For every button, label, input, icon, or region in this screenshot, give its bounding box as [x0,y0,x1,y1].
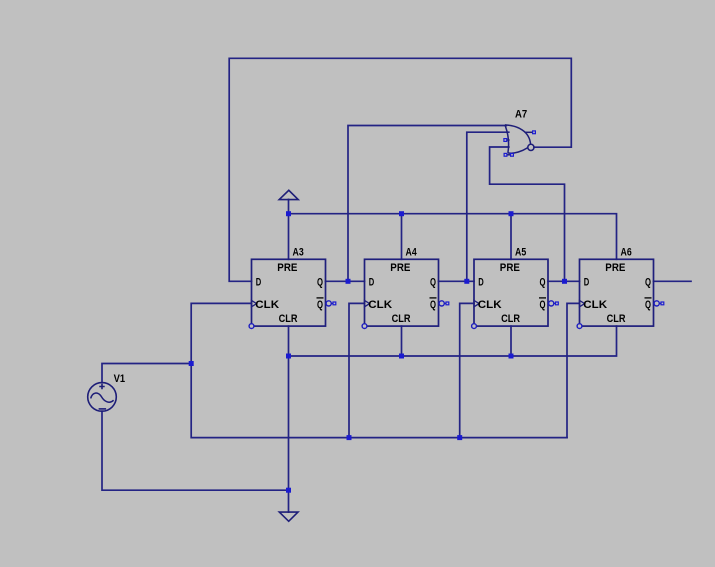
wire V1 minus terminal to ground [102,411,289,490]
svg-text:A4: A4 [406,247,417,259]
svg-text:CLK: CLK [255,299,279,311]
svg-text:CLK: CLK [478,299,502,311]
flip-flop A4 [362,259,449,328]
svg-text:D: D [584,276,590,288]
svg-text:A6: A6 [621,247,632,259]
svg-text:D: D [369,276,375,288]
node junction PRE A5 [509,211,514,216]
svg-text:PRE: PRE [390,262,410,274]
node junction ground [286,488,291,493]
pin square gate input3 [504,139,507,142]
node junction Q4 [464,279,469,284]
node junction CLK A5 [457,435,462,440]
wire A4 PRE drop [401,214,403,260]
pin square gate upper [533,131,536,134]
node junction V1 clk [189,361,194,366]
svg-text:CLR: CLR [392,313,411,325]
wire A5.Q to A6.D [548,280,580,282]
voltage source V1 [88,383,117,412]
wire CLR bus [289,326,617,356]
wire A4.Q to A5.D [439,280,475,282]
wire VCC arrow to PRE bus [288,199,290,213]
svg-text:CLR: CLR [501,313,520,325]
svg-text:CLK: CLK [583,299,607,311]
svg-text:Q: Q [430,299,436,311]
wire CLK riser A6 [567,303,580,437]
svg-text:Q: Q [645,299,651,311]
wire PRE bus [289,214,617,260]
svg-text:CLR: CLR [279,313,298,325]
svg-text:Q: Q [645,276,651,288]
pin square gate bottom right [511,153,514,156]
svg-text:Q: Q [317,299,323,311]
node junction CLR A3 [286,354,291,359]
svg-text:Q: Q [540,276,546,288]
wire A3 PRE drop [288,214,290,260]
node junction CLR A5 [509,354,514,359]
wire V1 plus terminal to CLK net [102,364,191,383]
node junction Q3 [346,279,351,284]
node junction PRE A4 [399,211,404,216]
svg-text:CLK: CLK [368,299,392,311]
svg-text:PRE: PRE [500,262,520,274]
wire A3 CLR down to ground [288,326,290,512]
flip-flop A3 [249,259,336,328]
svg-text:A3: A3 [293,247,304,259]
svg-text:PRE: PRE [277,262,297,274]
node junction PRE A3 [286,211,291,216]
wire CLK riser A4 [349,303,365,437]
node junction CLR A4 [399,354,404,359]
wire CLK riser A5 [460,303,474,437]
flip-flop A6 [577,259,664,328]
svg-text:PRE: PRE [605,262,625,274]
flip-flop A5 [472,259,559,328]
wire node Q5 up and around to gate input 4 [490,147,565,281]
wire A5 CLR drop [510,326,512,356]
svg-text:A7: A7 [515,109,527,121]
svg-text:Q: Q [540,299,546,311]
power symbol VCC arrow [279,190,298,199]
svg-text:D: D [256,276,262,288]
svg-text:CLR: CLR [607,313,626,325]
wire feedback: gate A7 output to top rail down to A3 D [229,58,571,281]
svg-text:Q: Q [317,276,323,288]
node junction Q5 [562,279,567,284]
svg-text:V1: V1 [114,373,126,385]
node junction CLK A4 [347,435,352,440]
pin square gate bottom left [504,153,507,156]
wire node Q4 up to gate input 2 [467,132,509,281]
svg-text:D: D [478,276,484,288]
wire node Q3 up to gate input 1 [348,126,506,282]
wire A4 CLR drop [401,326,403,356]
svg-text:A5: A5 [515,247,526,259]
wire A5 PRE drop [510,214,512,260]
wire A6.Q output stub [654,280,692,282]
svg-text:Q: Q [430,276,436,288]
ground symbol [279,512,298,521]
wire A3.Q to A4.D [326,280,365,282]
gate A7 [505,125,534,155]
wire CLK trunk A3 [191,303,567,437]
